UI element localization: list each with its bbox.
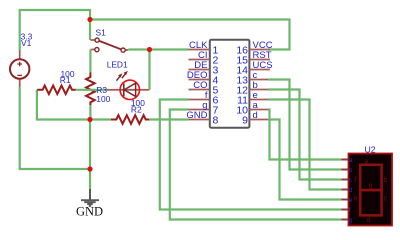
svg-text:R2: R2 [131, 105, 142, 115]
pin 4 DEO [189, 79, 210, 81]
pin 11 e [249, 99, 270, 101]
wire f to display [160, 100, 342, 210]
wire d to display [268, 120, 342, 200]
wire c to display [268, 80, 342, 170]
svg-text:d: d [349, 188, 352, 194]
pin 6 f [189, 99, 210, 101]
wire [148, 50, 150, 90]
svg-text:V1: V1 [21, 38, 32, 48]
svg-text:U2: U2 [365, 145, 376, 155]
pin 9 d [249, 119, 270, 121]
resistor R3 [86, 73, 95, 106]
svg-text:R1: R1 [60, 75, 71, 85]
wire [89, 105, 91, 120]
LED LED1 [107, 71, 150, 100]
wire [128, 48, 188, 50]
display segment digit [360, 165, 381, 216]
display U2 pins [342, 160, 349, 220]
pin 13 c [249, 79, 270, 81]
svg-text:e: e [354, 196, 358, 203]
pin 1 CLK [189, 49, 210, 51]
wire [89, 50, 91, 73]
resistor R2 [111, 115, 149, 124]
switch S1 [91, 38, 129, 52]
svg-text:d: d [367, 217, 371, 224]
wire [90, 20, 290, 50]
node junction top rail [87, 17, 92, 22]
wire b to display [268, 90, 342, 180]
svg-text:GND: GND [76, 205, 103, 219]
node junction resistors [87, 117, 92, 122]
wire [20, 87, 90, 169]
svg-text:9: 9 [242, 115, 248, 127]
wire g to display [170, 110, 342, 220]
pin 8 GND [189, 119, 210, 121]
node junction ground [87, 166, 92, 171]
svg-text:100: 100 [96, 94, 110, 104]
wire a to display [268, 110, 342, 160]
svg-text:c: c [384, 196, 388, 203]
svg-text:b: b [384, 177, 388, 184]
svg-text:8: 8 [213, 115, 219, 127]
pin 7 g [189, 109, 210, 111]
svg-text:g: g [349, 218, 352, 224]
svg-text:S1: S1 [96, 27, 107, 37]
svg-text:f: f [355, 177, 357, 184]
pin 2 CI [189, 59, 210, 61]
ground [81, 189, 99, 206]
wire [20, 10, 90, 50]
voltage source V1 [10, 50, 29, 87]
resistor R1 [37, 86, 75, 95]
pin 15 RST [249, 59, 270, 61]
svg-text:d: d [253, 110, 258, 121]
svg-text:g: g [369, 183, 373, 190]
svg-text:LED1: LED1 [107, 60, 128, 70]
pin 5 CO [189, 89, 210, 91]
wire [37, 90, 90, 120]
wire [76, 89, 107, 91]
pin 14 UCS [249, 69, 270, 71]
wire [90, 118, 111, 120]
display pin labels [349, 158, 353, 224]
node junction switch out [147, 47, 152, 52]
pin 3 DE [189, 69, 210, 71]
svg-text:c: c [349, 178, 352, 184]
IC U1 body [210, 40, 250, 128]
wire [149, 118, 188, 120]
pin 16 VCC [249, 49, 270, 51]
pin 10 a [249, 109, 270, 111]
svg-text:a: a [365, 158, 369, 165]
wire [89, 120, 91, 190]
svg-text:GND: GND [186, 110, 207, 121]
wire e to display [268, 100, 342, 190]
pin 12 b [249, 89, 270, 91]
display segment labels [354, 158, 388, 224]
display U2 body [349, 154, 393, 226]
